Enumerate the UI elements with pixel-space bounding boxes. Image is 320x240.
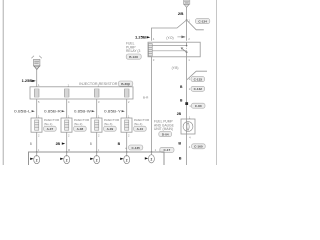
- wire label 1.25-B with arrow: [22, 79, 36, 83]
- node A (3-way splice), pin 1: [186, 19, 188, 21]
- svg-text:C-160: C-160: [194, 145, 203, 149]
- wire: injector 1 to bus: [36, 132, 38, 152]
- injector resistor box: [30, 87, 133, 99]
- svg-text:B-R: B-R: [143, 95, 149, 99]
- injector 2 symbol: [61, 118, 72, 132]
- page left border: [2, 0, 4, 165]
- injector 4 label + code box A-10: [134, 118, 150, 131]
- svg-text:2B: 2B: [177, 112, 182, 116]
- svg-text:A-07: A-07: [47, 127, 54, 131]
- fuel pump unit name label: [154, 120, 175, 131]
- pump connector code box D-04: [159, 132, 172, 137]
- svg-text:C-135: C-135: [131, 146, 140, 150]
- svg-text:B-36X: B-36X: [121, 82, 131, 86]
- svg-text:2B: 2B: [56, 142, 61, 146]
- wire: relay pin 1 down to fuel pump and bottom: [186, 57, 188, 165]
- ground bus wire: [29, 152, 165, 165]
- relay name label: [126, 42, 141, 54]
- wire label 0.85B-W with arrow: [74, 110, 95, 114]
- svg-text:0.85B-L: 0.85B-L: [14, 110, 31, 114]
- resistor R4: [124, 89, 129, 97]
- svg-text:B: B: [90, 142, 92, 146]
- svg-text:(No.3): (No.3): [104, 122, 113, 126]
- wire label 1.25-B with arrow: [135, 36, 150, 40]
- wire label 2B with arrow (injector 2 wire): [56, 142, 66, 146]
- resistor connector code box B-36X: [118, 81, 132, 86]
- svg-text:1.25B: 1.25B: [135, 36, 146, 40]
- svg-text:(Y.O): (Y.O): [166, 36, 173, 40]
- svg-text:(No.4): (No.4): [134, 122, 143, 126]
- node 4 + code box C-135 (injector 4 wire): [125, 145, 143, 150]
- svg-text:2: 2: [151, 158, 153, 162]
- wire: node A right branch (to page right): [187, 20, 204, 30]
- wire: branch to right at node B: [187, 71, 207, 80]
- off-page oval 3 with arrow: [90, 152, 100, 164]
- svg-text:C-17: C-17: [164, 148, 171, 152]
- node 1B + code box C-17B (relay pin3 wire): [155, 147, 174, 152]
- node C, pin 1, connector code box C-132: [189, 86, 205, 91]
- wire: resistor to injector 2: [66, 99, 68, 118]
- off-page oval 4 with arrow: [120, 152, 130, 164]
- inline connector (black square) on pump wire, pin 1, code box C-80: [185, 102, 205, 108]
- svg-text:C-132: C-132: [194, 87, 203, 91]
- wire: injector 4 to bus: [126, 132, 128, 152]
- svg-text:B: B: [30, 142, 32, 146]
- injector 1 label + code box A-07: [44, 118, 60, 131]
- wire from connector to node A: [186, 7, 188, 20]
- svg-text:A-09: A-09: [107, 127, 114, 131]
- bus junction dot 4: [126, 151, 128, 153]
- svg-text:UNIT (MAIN): UNIT (MAIN): [154, 127, 173, 131]
- svg-text:M: M: [68, 148, 70, 152]
- svg-text:2: 2: [36, 158, 38, 162]
- svg-text:C-133: C-133: [194, 77, 203, 81]
- bus junction dot 3: [96, 151, 98, 153]
- svg-text:2: 2: [126, 158, 128, 162]
- svg-text:2B: 2B: [178, 12, 184, 16]
- off-page oval 1 with arrow: [30, 152, 40, 164]
- svg-text:D-04: D-04: [162, 133, 169, 137]
- injector 1 symbol: [31, 118, 42, 132]
- off-page oval 2 with arrow: [60, 152, 69, 164]
- node D, pin 4, connector code box C-160: [189, 144, 205, 149]
- svg-text:1.25B: 1.25B: [22, 79, 33, 83]
- svg-text:0.85B-R: 0.85B-R: [44, 110, 61, 114]
- wire: injector 3 to bus: [96, 132, 98, 152]
- relay contact (movable arm, pivot): [181, 42, 188, 57]
- wire: resistor to injector 1: [36, 99, 38, 118]
- resistor R3: [94, 89, 99, 97]
- node B, pin 1, connector code box C-133: [189, 77, 205, 82]
- connector symbol (top feed, cut by page edge): [183, 0, 189, 7]
- svg-text:2: 2: [66, 158, 68, 162]
- bus junction dot 1: [36, 151, 38, 153]
- svg-text:2: 2: [96, 158, 98, 162]
- wire: connector J1 to resistor pin 1: [36, 70, 38, 87]
- injector 3 symbol: [91, 118, 102, 132]
- svg-text:C-134: C-134: [198, 19, 207, 23]
- svg-text:RELAY (3: RELAY (3: [126, 49, 141, 53]
- svg-text:(Y.B): (Y.B): [172, 66, 179, 70]
- relay coil-contact link lines: [152, 45, 186, 47]
- relay U1 box: FUEL PUMP RELAY: [148, 42, 200, 57]
- injector 3 label + code box A-09: [104, 118, 120, 131]
- wire label 0.85B-R with arrow: [44, 110, 65, 114]
- wire: resistor to injector 3: [96, 99, 98, 118]
- svg-text:B: B: [179, 156, 182, 160]
- off-page oval 5 with arrow: [145, 152, 155, 163]
- fuel pump and gauge unit (main) symbol: [181, 119, 195, 134]
- wire: node A to relay pin 4 (left branch): [152, 20, 187, 41]
- relay connector code box B-13X: [126, 54, 141, 59]
- svg-text:A-08: A-08: [77, 127, 84, 131]
- joint connector J1 (feed to injector resistor): [31, 56, 41, 70]
- wire: relay pin 3 down to bus: [151, 57, 153, 152]
- svg-text:0.85B-W: 0.85B-W: [74, 110, 92, 114]
- wire: injector 2 to bus: [66, 132, 68, 152]
- svg-text:C-80: C-80: [195, 104, 202, 108]
- relay coil: [148, 44, 152, 56]
- bus junction dot 2: [66, 151, 68, 153]
- connector code box C-134: [195, 19, 209, 24]
- bus junction dot 5: [151, 151, 153, 153]
- svg-text:0.85B-Y: 0.85B-Y: [104, 110, 122, 114]
- injector 2 label + code box A-08: [74, 118, 90, 131]
- svg-text:(No.1): (No.1): [44, 122, 53, 126]
- wire label 0.85B-L with arrow: [14, 110, 35, 114]
- resistor R2: [64, 89, 69, 97]
- injector 4 symbol: [121, 118, 132, 132]
- page right border: [216, 0, 218, 165]
- svg-text:A-10: A-10: [137, 127, 144, 131]
- svg-text:B: B: [178, 141, 181, 145]
- wire: node A down to relay pin 2: [186, 20, 188, 41]
- resistor R1: [34, 89, 39, 97]
- wire label (Y.O) with arrow: [166, 36, 185, 40]
- svg-text:B-13X: B-13X: [129, 55, 139, 59]
- wire: resistor to injector 4: [126, 99, 128, 118]
- wire label 0.85B-Y with arrow: [104, 110, 125, 114]
- svg-text:(No.2): (No.2): [74, 122, 83, 126]
